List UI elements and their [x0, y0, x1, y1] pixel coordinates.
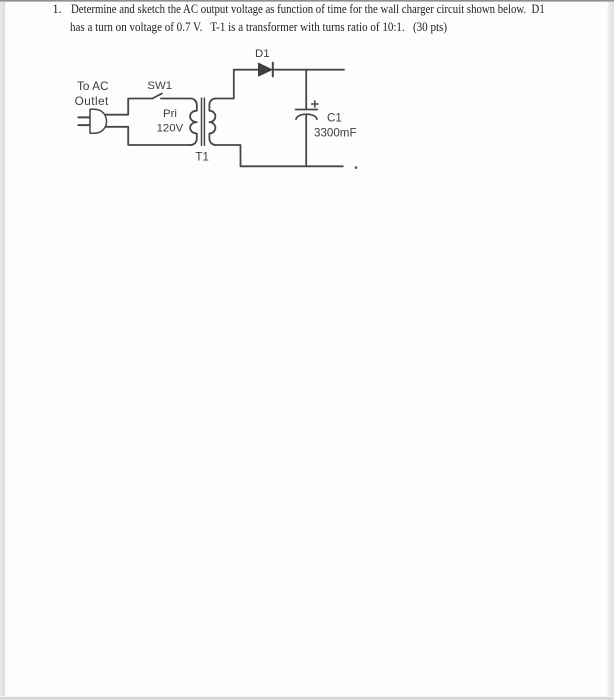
- capacitor C1 curved plate: [296, 114, 317, 119]
- AC plug P1 prong (top): [78, 116, 90, 118]
- svg-text:3300mF: 3300mF: [314, 127, 357, 140]
- wire: primary bottom to riser and to plug bottom terminal: [128, 127, 190, 145]
- svg-text:120V: 120V: [157, 123, 184, 135]
- problem text line 2: [70, 20, 447, 35]
- transformer T1 core: [202, 98, 205, 145]
- page left margin strip: [0, 0, 6, 700]
- wire: top rail junction down to capacitor top plate: [305, 70, 307, 109]
- svg-text:SW1: SW1: [147, 80, 172, 92]
- wire: plug top terminal to riser and up to switch row: [98, 99, 153, 115]
- wire: switch right contact to transformer primary top: [161, 98, 191, 100]
- AC plug P1 prong (bottom): [78, 124, 90, 126]
- problem text line 1: [53, 2, 62, 17]
- switch SW1 arm (open): [153, 94, 162, 98]
- wire: diode cathode to output top rail: [273, 69, 344, 71]
- transformer T1 primary winding: [190, 99, 197, 146]
- transformer T1 secondary winding: [209, 99, 215, 146]
- svg-text:Pri: Pri: [163, 108, 177, 120]
- page top border line: [0, 0, 614, 2]
- wire: capacitor bottom to bottom rail: [305, 115, 307, 167]
- label + polarity of C1: [312, 101, 318, 107]
- svg-text:C1: C1: [327, 112, 342, 125]
- svg-text:T1: T1: [195, 151, 209, 164]
- wire: secondary top up to diode anode rail: [216, 70, 259, 99]
- svg-text:To AC: To AC: [77, 79, 109, 93]
- diode D1 cathode bar: [272, 63, 274, 77]
- diode D1 triangle: [259, 63, 273, 76]
- svg-text:D1: D1: [255, 48, 270, 60]
- wire: plug bottom stub: [98, 126, 128, 128]
- capacitor C1 top plate: [296, 109, 318, 111]
- label "To AC Outlet": [75, 79, 109, 108]
- wire: secondary bottom down to bottom rail: [216, 145, 343, 166]
- page bottom border line: [0, 696, 614, 700]
- AC plug P1 body: [90, 109, 107, 133]
- svg-text:Outlet: Outlet: [75, 94, 109, 108]
- page right margin strip: [607, 0, 614, 700]
- output negative terminal mark: [355, 166, 358, 169]
